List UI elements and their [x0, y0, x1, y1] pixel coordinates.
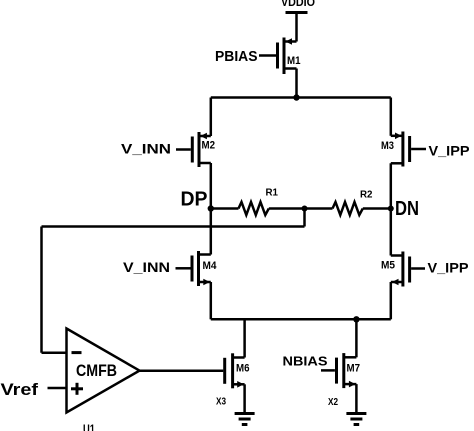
transistor M3 gate bar: [408, 136, 411, 162]
wire V_IPP gate (upper): [411, 148, 426, 151]
svg-text:M6: M6: [236, 363, 250, 375]
wire DP to R1: [211, 207, 239, 210]
svg-text:M4: M4: [203, 260, 218, 272]
wire M1 drain to top bus: [295, 69, 298, 98]
transistor M5 drain stub: [391, 254, 403, 257]
svg-text:VDDIO: VDDIO: [281, 0, 315, 9]
svg-text:V_IPP: V_IPP: [429, 143, 470, 159]
transistor M6 gate bar: [223, 358, 226, 384]
transistor M1 drain stub: [284, 67, 297, 70]
svg-text:PBIAS: PBIAS: [215, 48, 258, 65]
transistor M1 source stub: [284, 40, 297, 43]
transistor M6 source stub: [233, 383, 245, 386]
svg-text:U1: U1: [83, 422, 95, 431]
transistor M7 source arrow (NMOS): [349, 381, 356, 388]
wire V_INN gate (upper): [176, 148, 191, 151]
junction dot top bus: [293, 94, 299, 100]
transistor M7 source stub: [344, 383, 357, 386]
transistor M1 gate bar: [276, 43, 279, 69]
resistor R2: [333, 202, 363, 215]
svg-text:M2: M2: [202, 140, 216, 152]
op-amp plus sign: [71, 387, 83, 390]
transistor M7 channel bar: [342, 353, 345, 388]
ground symbol (M6): [235, 412, 255, 415]
transistor M1 channel bar: [283, 38, 286, 75]
wire Vref to plus input: [48, 387, 68, 390]
transistor M2 gate bar: [191, 137, 194, 163]
transistor M6 drain stub: [233, 356, 245, 359]
svg-text:Vref: Vref: [1, 381, 39, 399]
transistor M2 drain stub: [199, 162, 211, 165]
junction dot R1/R2 midpoint: [302, 206, 308, 212]
transistor M2 source arrow (PMOS): [200, 133, 207, 140]
svg-text:X3: X3: [216, 396, 226, 408]
svg-text:V_IPP: V_IPP: [428, 260, 469, 276]
svg-text:DP: DP: [181, 189, 208, 211]
wire M6 source to ground: [243, 384, 246, 413]
transistor M6 channel bar: [231, 353, 234, 388]
transistor M3 source arrow (PMOS): [395, 133, 402, 140]
svg-text:CMFB: CMFB: [76, 362, 117, 380]
wire feedback vertical: [40, 227, 43, 353]
wire M2 drain down through DP to M4 drain: [210, 163, 213, 255]
wire M3 drain down through DN to M5 drain: [390, 163, 393, 255]
transistor M7 drain stub: [344, 356, 357, 359]
svg-text:V_INN: V_INN: [121, 141, 171, 157]
transistor M4 source stub: [199, 281, 211, 284]
wire top bus: [211, 96, 391, 99]
transistor M2 source stub: [199, 135, 211, 138]
svg-text:M7: M7: [347, 363, 361, 375]
wire R2 to DN: [363, 207, 391, 210]
wire bottom bus: [211, 318, 391, 321]
transistor M5 gate bar: [408, 257, 411, 283]
transistor M3 channel bar: [401, 132, 404, 167]
transistor M4 source arrow (NMOS): [203, 279, 210, 286]
transistor M4 gate bar: [191, 256, 194, 282]
resistor R1: [239, 202, 269, 215]
junction dot DN: [388, 206, 394, 212]
wire M4 source to bottom bus: [210, 282, 213, 319]
transistor M5 channel bar: [401, 252, 404, 287]
wire feedback to CMFB minus input: [42, 352, 68, 355]
svg-text:DN: DN: [395, 198, 419, 220]
transistor M1 source arrow (PMOS): [285, 38, 292, 45]
wire R1 to R2: [269, 207, 333, 210]
wire M7 source to ground: [355, 384, 358, 413]
wire top bus to M3 source: [390, 98, 393, 136]
wire bottom bus to M6 drain: [243, 319, 246, 357]
transistor M3 drain stub: [391, 162, 403, 165]
ground symbol (M7): [346, 412, 366, 415]
wire bottom bus to M7 drain: [355, 319, 358, 357]
wire feedback horizontal: [42, 225, 305, 228]
wire NBIAS gate: [321, 369, 335, 372]
wire VDDIO to M1 source: [295, 13, 298, 42]
wire V_IPP gate (lower): [411, 267, 425, 270]
svg-text:R1: R1: [266, 187, 279, 199]
transistor M4 channel bar: [197, 251, 200, 286]
transistor M5 source stub: [391, 281, 403, 284]
wire top bus to M2 source: [210, 98, 213, 137]
op-amp minus sign: [72, 351, 82, 354]
op-amp U1 triangle: [67, 329, 140, 413]
svg-text:X2: X2: [328, 396, 338, 408]
transistor M3 source stub: [391, 135, 403, 138]
transistor M7 gate bar: [335, 358, 338, 384]
wire PBIAS gate: [259, 54, 276, 57]
svg-text:M1: M1: [287, 55, 301, 67]
svg-text:M5: M5: [381, 260, 395, 272]
wire CMFB output to M6 gate: [140, 370, 224, 373]
transistor M4 drain stub: [199, 253, 211, 256]
wire V_INN gate (lower): [176, 267, 191, 270]
wire M5 source to bottom bus: [390, 282, 393, 319]
transistor M6 source arrow (NMOS): [237, 381, 244, 388]
transistor M2 channel bar: [198, 132, 201, 167]
transistor M5 source arrow (NMOS): [392, 279, 399, 286]
wire midpoint down: [303, 209, 306, 227]
power symbol VDDIO bar: [286, 11, 308, 14]
junction dot DP: [208, 205, 214, 211]
svg-text:NBIAS: NBIAS: [283, 354, 328, 369]
svg-text:V_INN: V_INN: [123, 259, 170, 275]
svg-text:M3: M3: [381, 140, 394, 152]
svg-text:R2: R2: [360, 189, 373, 201]
junction dot bottom bus: [353, 316, 359, 322]
